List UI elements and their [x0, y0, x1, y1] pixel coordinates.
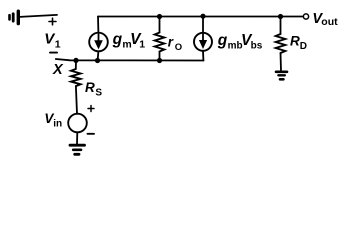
minus sign of V1	[50, 52, 57, 54]
wire gmbVbs top lead	[202, 16, 204, 33]
junction (gmV1 bottom)	[95, 58, 100, 63]
current source U1 gmV1	[89, 33, 108, 52]
junction (RD top)	[278, 14, 283, 19]
source Vin	[68, 114, 87, 133]
junction (rO top)	[157, 14, 162, 19]
svg-text:bs: bs	[251, 41, 263, 52]
svg-text:out: out	[321, 16, 338, 28]
svg-text:R: R	[290, 34, 300, 49]
svg-text:g: g	[217, 32, 228, 49]
svg-text:1: 1	[55, 38, 61, 50]
terminal Vout	[303, 14, 308, 19]
wire gmV1 bottom lead	[97, 51, 100, 60]
wire gmV1 top lead	[97, 17, 99, 33]
current source U2 gmbVbs	[194, 33, 212, 51]
wire top bus (drain row) to Vout terminal	[98, 16, 303, 18]
resistor RD	[276, 17, 286, 71]
node X	[73, 58, 78, 63]
svg-text:S: S	[95, 87, 102, 98]
wire gmbVbs bottom lead	[202, 51, 204, 61]
svg-text:O: O	[175, 42, 182, 53]
label Vout	[312, 11, 338, 28]
svg-text:D: D	[300, 41, 307, 52]
junction (rO bottom)	[157, 58, 162, 63]
label RS	[85, 80, 102, 98]
wire Vin to ground	[76, 132, 78, 144]
resistor RS	[71, 61, 81, 114]
svg-text:g: g	[112, 31, 123, 48]
svg-text:in: in	[53, 119, 62, 130]
ground GND2 (below Vin)	[70, 145, 85, 154]
svg-text:1: 1	[139, 39, 145, 51]
label X	[52, 62, 64, 78]
svg-text:R: R	[85, 80, 95, 95]
svg-text:X: X	[52, 62, 64, 78]
wire source row through node X	[56, 59, 204, 61]
label rO	[168, 34, 182, 52]
ground GND3 (below RD)	[276, 72, 287, 80]
minus sign of Vin	[88, 133, 95, 135]
ground GND1 (top-left, gate ground, rotated left)	[10, 11, 19, 23]
plus sign of V1	[49, 18, 56, 25]
label RD	[290, 34, 307, 53]
resistor rO	[155, 17, 165, 61]
label gmbVbs	[217, 32, 263, 52]
label Vin	[44, 111, 62, 130]
label V1	[44, 30, 61, 50]
svg-text:r: r	[168, 34, 174, 49]
junction (gmbVbs top)	[200, 14, 205, 19]
plus sign of Vin	[88, 106, 94, 112]
wire gate lead from GND1	[20, 15, 57, 17]
label gmV1	[112, 31, 146, 51]
